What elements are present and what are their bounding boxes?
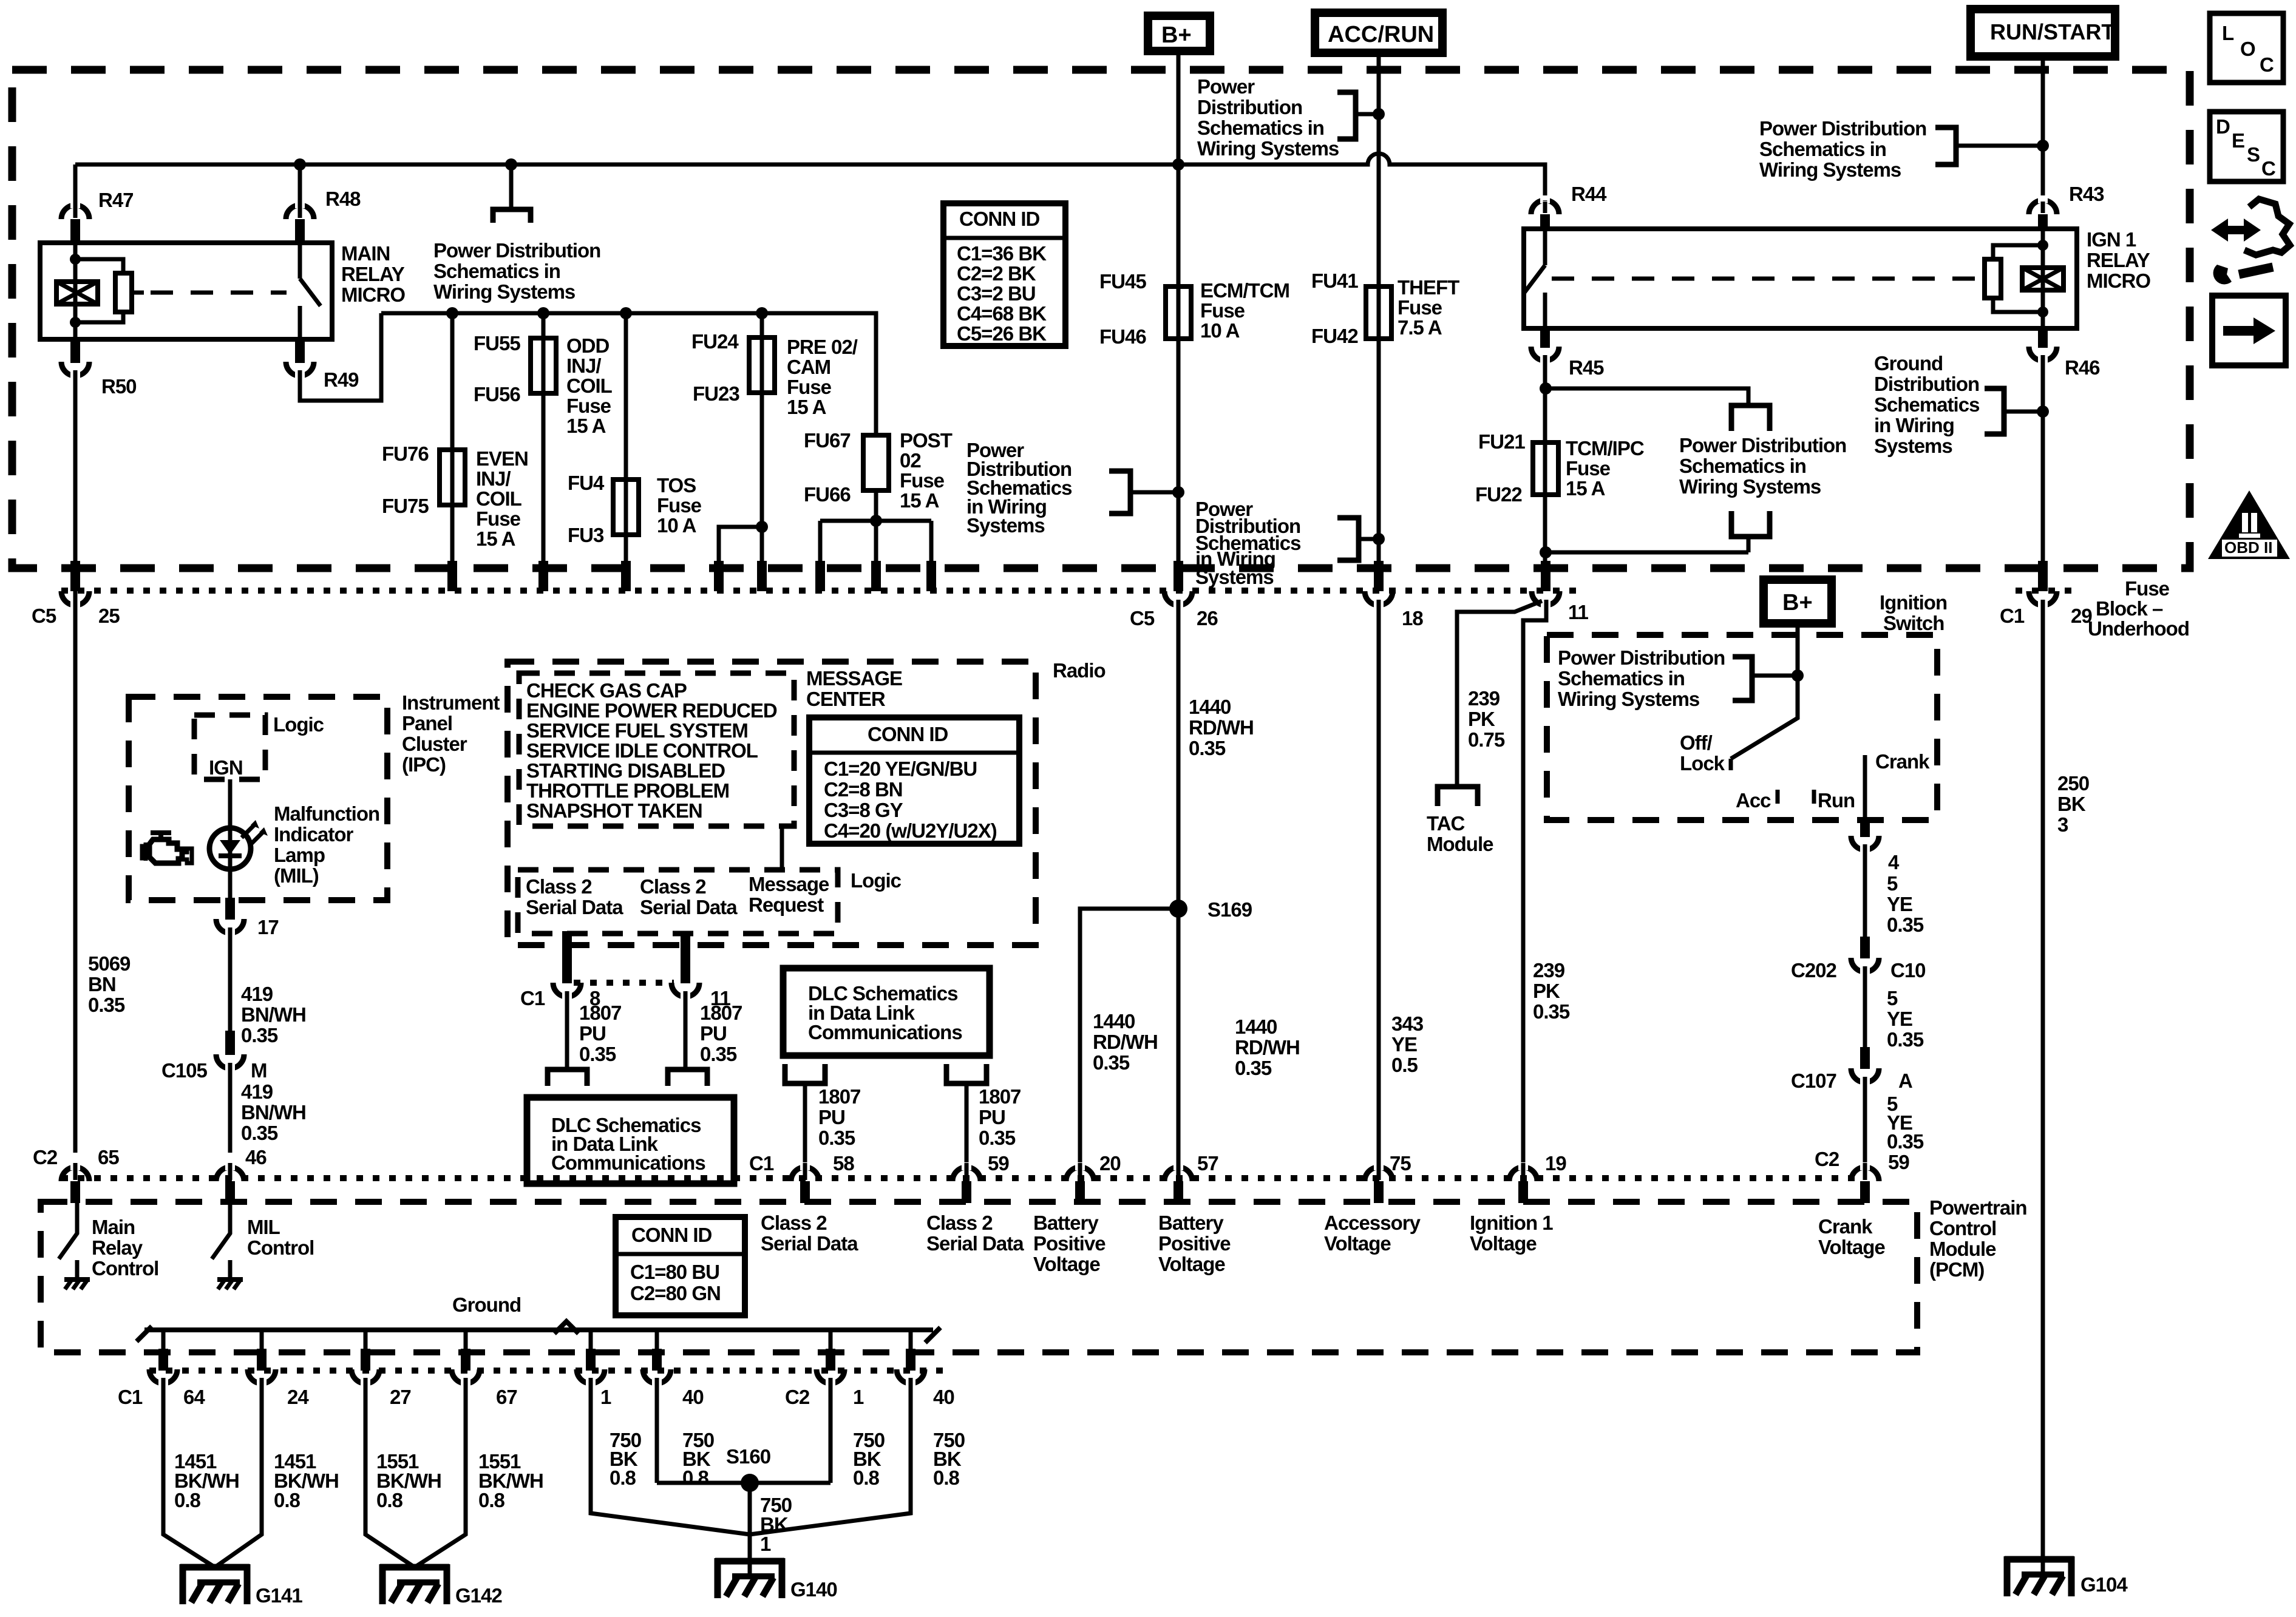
svg-text:EVEN: EVEN bbox=[476, 447, 528, 470]
svg-text:1440: 1440 bbox=[1093, 1010, 1135, 1032]
wire: pin 11 split to TAC module bbox=[1457, 601, 1542, 785]
svg-text:Main: Main bbox=[92, 1216, 135, 1238]
connector R48 bbox=[298, 164, 302, 206]
svg-text:239: 239 bbox=[1533, 959, 1565, 981]
svg-text:Systems: Systems bbox=[1195, 566, 1274, 588]
svg-text:Module: Module bbox=[1929, 1238, 1996, 1260]
svg-text:Crank: Crank bbox=[1875, 750, 1930, 773]
svg-text:C1=36 BK: C1=36 BK bbox=[957, 242, 1047, 265]
bracket tap to ACC/RUN line (lower) bbox=[1337, 518, 1359, 560]
wire + fuse FU76/FU75 EVEN INJ/COIL bbox=[450, 313, 455, 563]
label: Power Distribution Schematics (5 lines, ECM tap) bbox=[966, 439, 1072, 537]
svg-text:0.35: 0.35 bbox=[1189, 737, 1226, 759]
svg-text:20: 20 bbox=[1099, 1152, 1121, 1175]
svg-text:L: L bbox=[2222, 22, 2234, 44]
svg-text:Wiring Systems: Wiring Systems bbox=[1679, 475, 1821, 498]
junction: R46 ground-dist tap bbox=[2037, 405, 2049, 418]
svg-text:Class 2: Class 2 bbox=[761, 1212, 827, 1234]
svg-text:Positive: Positive bbox=[1033, 1232, 1106, 1255]
svg-text:FU76: FU76 bbox=[382, 442, 429, 465]
svg-text:D: D bbox=[2216, 115, 2230, 138]
svg-text:5069: 5069 bbox=[88, 952, 131, 975]
svg-text:40: 40 bbox=[933, 1386, 954, 1408]
svg-text:0.8: 0.8 bbox=[478, 1489, 505, 1511]
pin 75 bbox=[1365, 1167, 1393, 1181]
label: Battery Positive Voltage (pin 20) bbox=[1033, 1212, 1106, 1275]
wire: crank 5 YE 0.35 bbox=[1863, 849, 1867, 939]
wire: 750 BK 1 to G140 bbox=[748, 1483, 752, 1577]
svg-text:TOS: TOS bbox=[657, 474, 696, 497]
svg-text:CENTER: CENTER bbox=[806, 688, 886, 710]
svg-text:Systems: Systems bbox=[1874, 435, 1952, 457]
svg-text:CAM: CAM bbox=[787, 356, 830, 378]
wire: R45 to TCM/IPC fuse + off-page (top) bbox=[1543, 359, 1547, 563]
label: Ignition 1 Voltage bbox=[1470, 1212, 1553, 1255]
svg-text:R43: R43 bbox=[2069, 183, 2104, 205]
svg-text:0.35: 0.35 bbox=[1887, 1028, 1924, 1051]
junction: ACC/RUN lower tap bbox=[1373, 533, 1385, 545]
svg-text:RUN/START: RUN/START bbox=[1990, 19, 2114, 44]
bracket tap (ground distribution) bbox=[1985, 388, 2004, 434]
svg-text:R45: R45 bbox=[1569, 356, 1604, 379]
wire: pin 1 to S160 leg bbox=[591, 1382, 750, 1534]
svg-text:CONN ID: CONN ID bbox=[631, 1224, 712, 1246]
pin C2/59 (crank voltage) bbox=[1815, 1148, 1909, 1173]
svg-text:Relay: Relay bbox=[92, 1236, 143, 1259]
svg-text:Off/: Off/ bbox=[1680, 731, 1713, 754]
svg-text:R47: R47 bbox=[98, 189, 134, 211]
pin 46 bbox=[216, 1167, 244, 1181]
label: Power Distribution Schematics in Wiring Systems (RUN/START tap) bbox=[1759, 117, 1926, 181]
bracket tap (ignition B+) bbox=[1733, 657, 1752, 700]
off-page bracket (up) bbox=[1731, 511, 1770, 537]
label: Malfunction Indicator Lamp (MIL) bbox=[274, 802, 379, 887]
wire: pin 11 jog to ignition 1 line bbox=[1523, 604, 1546, 1168]
svg-text:Schematics in: Schematics in bbox=[1558, 667, 1685, 690]
svg-text:1: 1 bbox=[600, 1386, 611, 1408]
svg-text:Instrument: Instrument bbox=[402, 691, 500, 714]
svg-text:17: 17 bbox=[257, 916, 279, 938]
svg-text:Communications: Communications bbox=[551, 1151, 705, 1174]
svg-text:MAIN: MAIN bbox=[341, 242, 390, 265]
svg-text:0.35: 0.35 bbox=[818, 1127, 855, 1149]
ground G104 bbox=[2005, 1556, 2128, 1596]
svg-text:Ground: Ground bbox=[1874, 352, 1943, 375]
forward arrow box icon bbox=[2212, 296, 2286, 365]
svg-text:(MIL): (MIL) bbox=[274, 864, 319, 887]
svg-text:Ground: Ground bbox=[452, 1293, 521, 1316]
svg-text:G140: G140 bbox=[790, 1578, 837, 1601]
svg-text:24: 24 bbox=[287, 1386, 309, 1408]
svg-text:PU: PU bbox=[979, 1106, 1005, 1128]
connector C107/A bbox=[1860, 1047, 1870, 1069]
svg-text:MESSAGE: MESSAGE bbox=[806, 667, 902, 690]
svg-text:FU41: FU41 bbox=[1311, 269, 1358, 292]
svg-text:40: 40 bbox=[682, 1386, 704, 1408]
wire: pin 24 to G141 bbox=[215, 1382, 262, 1567]
label: Ground Distribution Schematics in Wiring Systems bbox=[1874, 352, 1979, 457]
svg-text:CONN ID: CONN ID bbox=[959, 208, 1040, 230]
IGN 1 RELAY MICRO box bbox=[1524, 229, 2077, 328]
svg-text:C2: C2 bbox=[785, 1386, 810, 1408]
svg-text:Battery: Battery bbox=[1033, 1212, 1099, 1234]
off-page bracket (down) bbox=[1731, 405, 1770, 431]
svg-text:0.8: 0.8 bbox=[682, 1466, 709, 1489]
svg-text:C5=26 BK: C5=26 BK bbox=[957, 322, 1047, 345]
svg-text:Fuse: Fuse bbox=[476, 507, 521, 530]
pin 59 bbox=[953, 1167, 980, 1181]
junction: main relay coil bottom bbox=[70, 317, 81, 328]
S160 junction bbox=[657, 1481, 830, 1485]
svg-text:MICRO: MICRO bbox=[2087, 269, 2150, 292]
svg-text:C1=80 BU: C1=80 BU bbox=[630, 1261, 719, 1283]
label: Power Distribution Schematics in Wiring Systems (TCM tap) bbox=[1679, 434, 1846, 498]
svg-text:PK: PK bbox=[1468, 708, 1495, 730]
svg-text:Wiring Systems: Wiring Systems bbox=[1759, 158, 1901, 181]
pin 17 (IPC out) bbox=[225, 898, 235, 920]
pin C2/1 (second) bbox=[826, 1349, 835, 1371]
svg-text:R49: R49 bbox=[324, 368, 359, 391]
svg-text:Control: Control bbox=[247, 1236, 314, 1259]
pin C1/58 bbox=[791, 1167, 819, 1181]
replace-part icon (double arrow + wrench) bbox=[2211, 199, 2290, 284]
svg-text:FU46: FU46 bbox=[1099, 325, 1146, 348]
svg-text:10 A: 10 A bbox=[657, 514, 696, 537]
svg-text:Power Distribution: Power Distribution bbox=[433, 239, 600, 262]
ground pins connector strip (dotted) bbox=[149, 1368, 947, 1374]
svg-text:C3=2 BU: C3=2 BU bbox=[957, 282, 1036, 305]
junction: feeder to TOS fuse bbox=[620, 307, 632, 319]
svg-text:FU56: FU56 bbox=[474, 383, 520, 405]
svg-text:THEFT: THEFT bbox=[1398, 276, 1459, 299]
connecting segment message box to logic box bbox=[780, 826, 784, 870]
Main Relay Control switch bbox=[59, 1202, 77, 1278]
junction: POST fuse output split bbox=[870, 515, 882, 527]
label: Battery Positive Voltage (pin 57) bbox=[1158, 1212, 1231, 1275]
wire patches through connector gaps (cups) bbox=[75, 600, 2043, 609]
label: 5069 BN 0.35 bbox=[88, 952, 131, 1016]
svg-text:29: 29 bbox=[2071, 605, 2092, 627]
connector R45 bbox=[1540, 328, 1550, 348]
svg-text:R48: R48 bbox=[325, 188, 361, 210]
svg-text:RELAY: RELAY bbox=[341, 263, 405, 285]
dotted strip between radio pins bbox=[574, 980, 674, 986]
svg-text:419: 419 bbox=[241, 1080, 273, 1103]
svg-text:Powertrain: Powertrain bbox=[1929, 1196, 2027, 1219]
wire: pin 27 to G142 bbox=[365, 1382, 415, 1567]
junction: bus to B+ feed bbox=[1172, 158, 1184, 171]
svg-text:Crank: Crank bbox=[1818, 1215, 1873, 1238]
label: Class 2 Serial Data (pin 59) bbox=[926, 1212, 1024, 1255]
IGN1 relay dashed control line bbox=[1552, 277, 1980, 281]
RUN/START box (top) bbox=[1971, 9, 2115, 56]
junction: feeder to ODD fuse bbox=[537, 307, 549, 319]
pin C5/25 bbox=[70, 561, 80, 591]
pin 40 (first) bbox=[652, 1349, 662, 1371]
svg-text:Fuse: Fuse bbox=[566, 395, 611, 417]
ground G142 bbox=[380, 1564, 502, 1607]
svg-text:G141: G141 bbox=[256, 1584, 302, 1607]
wire + fuse FU24/FU23 PRE O2/CAM bbox=[760, 313, 764, 527]
pin 4 (crank out of ignition switch) bbox=[1860, 818, 1870, 837]
svg-text:POST: POST bbox=[900, 429, 953, 452]
svg-text:Acc: Acc bbox=[1736, 789, 1771, 812]
svg-text:Schematics: Schematics bbox=[1874, 393, 1979, 416]
svg-text:0.35: 0.35 bbox=[1533, 1000, 1570, 1023]
svg-text:INJ/: INJ/ bbox=[566, 354, 601, 377]
svg-text:Power: Power bbox=[1197, 75, 1255, 98]
connector R43 bbox=[2029, 200, 2057, 214]
svg-text:C: C bbox=[2261, 157, 2275, 180]
wire: 5 YE 0.35 (second) bbox=[1863, 971, 1867, 1049]
pin 57 bbox=[1164, 1167, 1192, 1181]
radio pin 11 bbox=[681, 931, 690, 983]
svg-text:G104: G104 bbox=[2080, 1573, 2128, 1596]
connector R46 bbox=[2038, 328, 2048, 348]
svg-text:CHECK GAS CAP: CHECK GAS CAP bbox=[526, 679, 687, 702]
bracket to DLC box (8) bbox=[548, 1070, 587, 1086]
ACC/RUN box (top) bbox=[1315, 13, 1442, 53]
Ignition Switch dashed box bbox=[1547, 635, 1937, 820]
top B+ bus wire with hop over ACC/RUN line bbox=[75, 154, 1545, 200]
svg-text:Power Distribution: Power Distribution bbox=[1679, 434, 1846, 456]
pin 1 (first) bbox=[586, 1349, 596, 1371]
svg-text:5: 5 bbox=[1887, 872, 1898, 895]
svg-text:G142: G142 bbox=[455, 1584, 502, 1607]
svg-text:THROTTLE PROBLEM: THROTTLE PROBLEM bbox=[526, 779, 729, 802]
Instrument Panel Cluster dashed box bbox=[129, 697, 387, 900]
svg-text:26: 26 bbox=[1197, 607, 1218, 629]
svg-text:Class 2: Class 2 bbox=[926, 1212, 993, 1234]
svg-text:Class 2: Class 2 bbox=[526, 875, 592, 898]
svg-text:Fuse: Fuse bbox=[1200, 299, 1245, 322]
svg-text:in Wiring: in Wiring bbox=[1874, 414, 1954, 436]
svg-text:1440: 1440 bbox=[1235, 1015, 1277, 1038]
IGN1 relay switch bbox=[1524, 229, 1545, 328]
wire: 1807 PU 0.35 (radio 8) bbox=[565, 995, 569, 1070]
off-page tap bracket (power distribution, left) bbox=[509, 164, 514, 209]
svg-text:C5: C5 bbox=[1130, 607, 1155, 629]
svg-text:FU55: FU55 bbox=[474, 332, 520, 354]
pin C1/64 bbox=[158, 1349, 168, 1371]
svg-text:FU66: FU66 bbox=[804, 483, 851, 506]
svg-text:46: 46 bbox=[245, 1146, 267, 1168]
DLC Schematics box 1 bbox=[527, 1097, 734, 1184]
svg-text:5: 5 bbox=[1887, 987, 1898, 1009]
svg-text:Serial Data: Serial Data bbox=[640, 896, 738, 918]
svg-text:Fuse: Fuse bbox=[1566, 457, 1611, 480]
svg-text:Switch: Switch bbox=[1883, 612, 1944, 634]
svg-text:C2=80 GN: C2=80 GN bbox=[630, 1282, 721, 1304]
svg-text:Message: Message bbox=[749, 873, 829, 895]
svg-text:C1=20 YE/GN/BU: C1=20 YE/GN/BU bbox=[824, 758, 977, 780]
svg-text:S169: S169 bbox=[1207, 898, 1252, 921]
svg-text:Underhood: Underhood bbox=[2088, 617, 2189, 640]
wire: B+ feed vertical x=1940 bbox=[1177, 51, 1181, 563]
svg-text:ENGINE POWER REDUCED: ENGINE POWER REDUCED bbox=[526, 699, 777, 722]
svg-text:RD/WH: RD/WH bbox=[1189, 716, 1254, 739]
svg-text:BN/WH: BN/WH bbox=[241, 1101, 306, 1124]
OBD II warning triangle bbox=[2208, 490, 2290, 559]
LOC box (top right) bbox=[2210, 13, 2283, 83]
svg-text:TCM/IPC: TCM/IPC bbox=[1566, 437, 1644, 459]
svg-text:58: 58 bbox=[833, 1152, 854, 1175]
label: Ignition Switch bbox=[1880, 591, 1947, 634]
svg-text:BN/WH: BN/WH bbox=[241, 1003, 306, 1026]
svg-text:O: O bbox=[2240, 38, 2255, 60]
Acc contact bbox=[1776, 790, 1780, 804]
PCM connector strip (dotted) bbox=[61, 1175, 1858, 1181]
pin 24 bbox=[257, 1349, 267, 1371]
svg-text:15 A: 15 A bbox=[900, 489, 939, 512]
svg-text:PU: PU bbox=[579, 1022, 606, 1045]
svg-text:0.35: 0.35 bbox=[579, 1043, 616, 1065]
svg-text:0.35: 0.35 bbox=[1887, 1130, 1924, 1153]
wire: R49 to fuse feeder bus bbox=[300, 313, 381, 401]
svg-text:BN: BN bbox=[88, 973, 116, 995]
svg-text:Voltage: Voltage bbox=[1470, 1232, 1537, 1255]
connector C202/C10 bbox=[1860, 937, 1870, 958]
svg-text:C: C bbox=[2260, 53, 2274, 76]
svg-text:0.35: 0.35 bbox=[700, 1043, 737, 1065]
svg-text:Fuse: Fuse bbox=[657, 494, 702, 517]
fuse block bottom connector strip (dotted) bbox=[61, 588, 2076, 594]
svg-text:Ignition 1: Ignition 1 bbox=[1470, 1212, 1553, 1234]
svg-text:R50: R50 bbox=[101, 375, 137, 398]
svg-text:0.35: 0.35 bbox=[1093, 1051, 1130, 1074]
svg-text:MIL: MIL bbox=[247, 1216, 280, 1238]
message center list dashed box bbox=[519, 673, 794, 826]
svg-text:Schematics in: Schematics in bbox=[433, 260, 560, 282]
svg-text:15 A: 15 A bbox=[1566, 477, 1605, 500]
svg-text:1807: 1807 bbox=[700, 1002, 742, 1024]
Crank contact wire bbox=[1863, 755, 1867, 820]
svg-text:1807: 1807 bbox=[979, 1085, 1021, 1108]
label: Class 2 Serial Data (pin 58) bbox=[761, 1212, 858, 1255]
svg-text:0.5: 0.5 bbox=[1391, 1054, 1418, 1076]
radio dashed box bbox=[508, 662, 1036, 945]
svg-text:27: 27 bbox=[390, 1386, 411, 1408]
junction: ACC/RUN tap bbox=[1373, 108, 1385, 120]
svg-text:IGN: IGN bbox=[209, 756, 243, 779]
relay dashed control line bbox=[132, 291, 144, 295]
svg-text:SNAPSHOT TAKEN: SNAPSHOT TAKEN bbox=[526, 799, 702, 822]
wire: 1807 PU 0.35 (radio 11) bbox=[684, 995, 688, 1070]
svg-text:59: 59 bbox=[988, 1152, 1009, 1175]
svg-text:Schematics in: Schematics in bbox=[1759, 138, 1886, 160]
svg-text:0.75: 0.75 bbox=[1468, 728, 1505, 751]
MIL Control switch bbox=[212, 1202, 230, 1278]
svg-text:B+: B+ bbox=[1782, 590, 1813, 615]
svg-text:C1: C1 bbox=[118, 1386, 143, 1408]
svg-text:Indicator: Indicator bbox=[274, 823, 354, 846]
svg-text:57: 57 bbox=[1197, 1152, 1218, 1175]
connector C105/M bbox=[225, 1031, 235, 1055]
svg-text:Systems: Systems bbox=[966, 514, 1045, 537]
B+ box (top) bbox=[1148, 16, 1210, 51]
svg-text:343: 343 bbox=[1391, 1012, 1424, 1035]
svg-text:Fuse: Fuse bbox=[1398, 296, 1442, 319]
connector R49 bbox=[295, 339, 305, 363]
bracket tap to ACC/RUN line bbox=[1337, 92, 1356, 139]
label: Fuse Block - Underhood bbox=[2088, 577, 2189, 640]
svg-text:C2: C2 bbox=[1815, 1148, 1839, 1170]
svg-text:0.35: 0.35 bbox=[1887, 914, 1924, 936]
svg-text:Schematics in: Schematics in bbox=[1679, 455, 1806, 477]
svg-text:0.8: 0.8 bbox=[376, 1489, 403, 1511]
Ground bus with break marks bbox=[144, 1327, 933, 1332]
svg-text:PU: PU bbox=[700, 1022, 727, 1045]
svg-text:C4=68 BK: C4=68 BK bbox=[957, 302, 1047, 325]
svg-text:Voltage: Voltage bbox=[1818, 1236, 1885, 1258]
svg-text:65: 65 bbox=[98, 1146, 119, 1168]
svg-text:Control: Control bbox=[92, 1257, 158, 1280]
svg-text:Wiring Systems: Wiring Systems bbox=[1197, 137, 1339, 160]
Off/Lock contact bbox=[1729, 759, 1733, 770]
svg-text:COIL: COIL bbox=[566, 375, 613, 397]
wire: 419 BN/WH 0.35 (second) bbox=[228, 1067, 233, 1153]
svg-text:15 A: 15 A bbox=[787, 396, 826, 418]
svg-text:E: E bbox=[2232, 129, 2244, 152]
wire: 419 BN/WH 0.35 bbox=[228, 932, 233, 1033]
svg-text:C105: C105 bbox=[161, 1059, 208, 1082]
svg-text:0.35: 0.35 bbox=[241, 1122, 278, 1144]
fuse feeder bus bbox=[381, 313, 876, 435]
svg-text:B+: B+ bbox=[1161, 22, 1192, 48]
label: Powertrain Control Module (PCM) bbox=[1929, 1196, 2027, 1281]
svg-text:Request: Request bbox=[749, 893, 824, 916]
IGN logic box bbox=[194, 715, 265, 779]
svg-text:02: 02 bbox=[900, 449, 921, 472]
svg-text:Control: Control bbox=[1929, 1217, 1996, 1239]
CONN ID table (PCM) bbox=[616, 1217, 745, 1315]
svg-text:PU: PU bbox=[818, 1106, 845, 1128]
wire: 5 YE 0.35 (third) bbox=[1863, 1081, 1867, 1168]
svg-text:Block –: Block – bbox=[2096, 597, 2163, 620]
svg-text:Accessory: Accessory bbox=[1324, 1212, 1421, 1234]
svg-text:FU45: FU45 bbox=[1099, 270, 1146, 293]
svg-text:FU42: FU42 bbox=[1311, 325, 1358, 347]
junction: ignition switch B+ tap bbox=[1792, 670, 1804, 682]
svg-text:250: 250 bbox=[2057, 772, 2089, 795]
bracket from DLC box 2 (pin 58) bbox=[785, 1064, 825, 1083]
svg-text:Communications: Communications bbox=[808, 1021, 962, 1043]
svg-text:Lock: Lock bbox=[1680, 752, 1725, 775]
svg-text:M: M bbox=[251, 1059, 267, 1082]
svg-text:(IPC): (IPC) bbox=[402, 753, 446, 776]
junction: PRE fuse output split bbox=[756, 521, 768, 533]
svg-text:1: 1 bbox=[853, 1386, 864, 1408]
svg-text:PRE 02/: PRE 02/ bbox=[787, 336, 858, 358]
svg-text:Distribution: Distribution bbox=[1197, 96, 1302, 118]
svg-text:FU67: FU67 bbox=[804, 429, 851, 452]
pin 20 bbox=[1066, 1167, 1094, 1181]
svg-text:INJ/: INJ/ bbox=[476, 467, 511, 490]
svg-text:Class 2: Class 2 bbox=[640, 875, 706, 898]
junction: feeder to PRE fuse bbox=[756, 307, 768, 319]
svg-text:FU3: FU3 bbox=[568, 524, 604, 546]
pin C5/26 bbox=[1173, 561, 1183, 591]
svg-text:SERVICE IDLE CONTROL: SERVICE IDLE CONTROL bbox=[526, 739, 758, 762]
svg-text:BK: BK bbox=[2057, 793, 2086, 815]
POST fuse output split bbox=[874, 490, 878, 521]
connector R50 bbox=[70, 339, 80, 363]
svg-text:COIL: COIL bbox=[476, 487, 522, 510]
wire: RUN/START vertical down to R43 bbox=[2041, 56, 2045, 200]
bracket tap to ECM line bbox=[1109, 471, 1130, 514]
svg-text:C2=2 BK: C2=2 BK bbox=[957, 262, 1036, 285]
splice S160 bbox=[741, 1474, 759, 1492]
